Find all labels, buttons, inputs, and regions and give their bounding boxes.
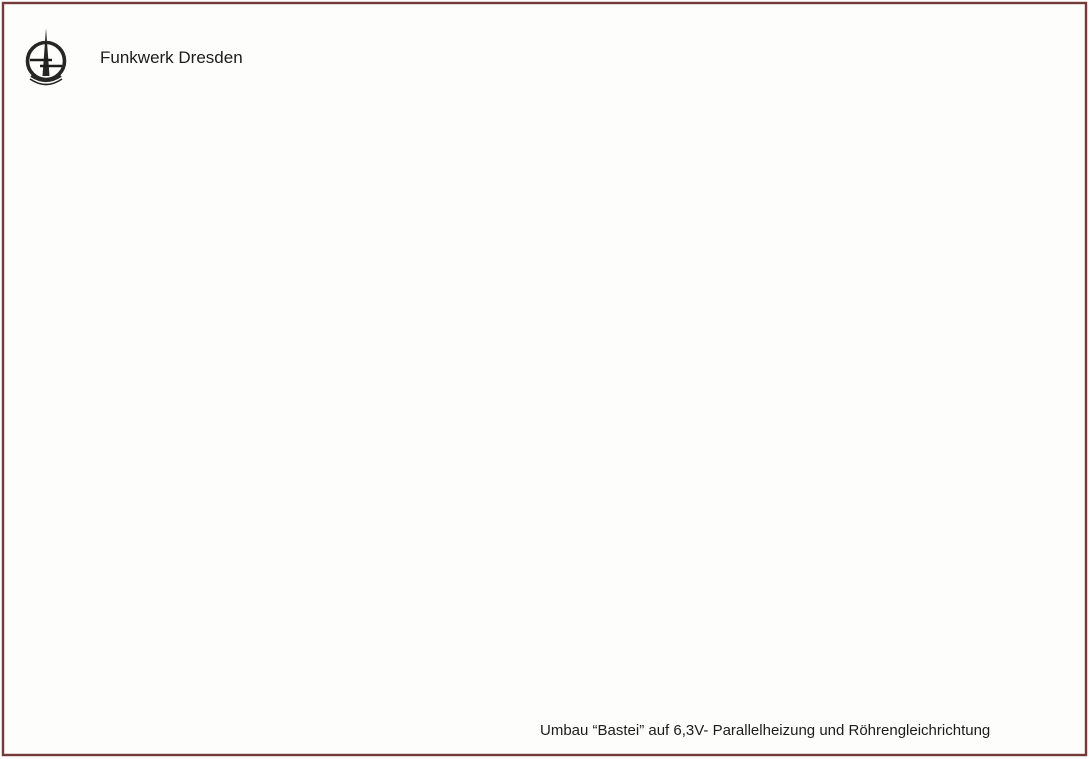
Funkwerk Dresden logo (28, 28, 65, 85)
svg-text:Funkwerk Dresden: Funkwerk Dresden (100, 48, 243, 67)
svg-text:Umbau “Bastei” auf 6,3V- Paral: Umbau “Bastei” auf 6,3V- Parallelheizung… (540, 722, 990, 739)
